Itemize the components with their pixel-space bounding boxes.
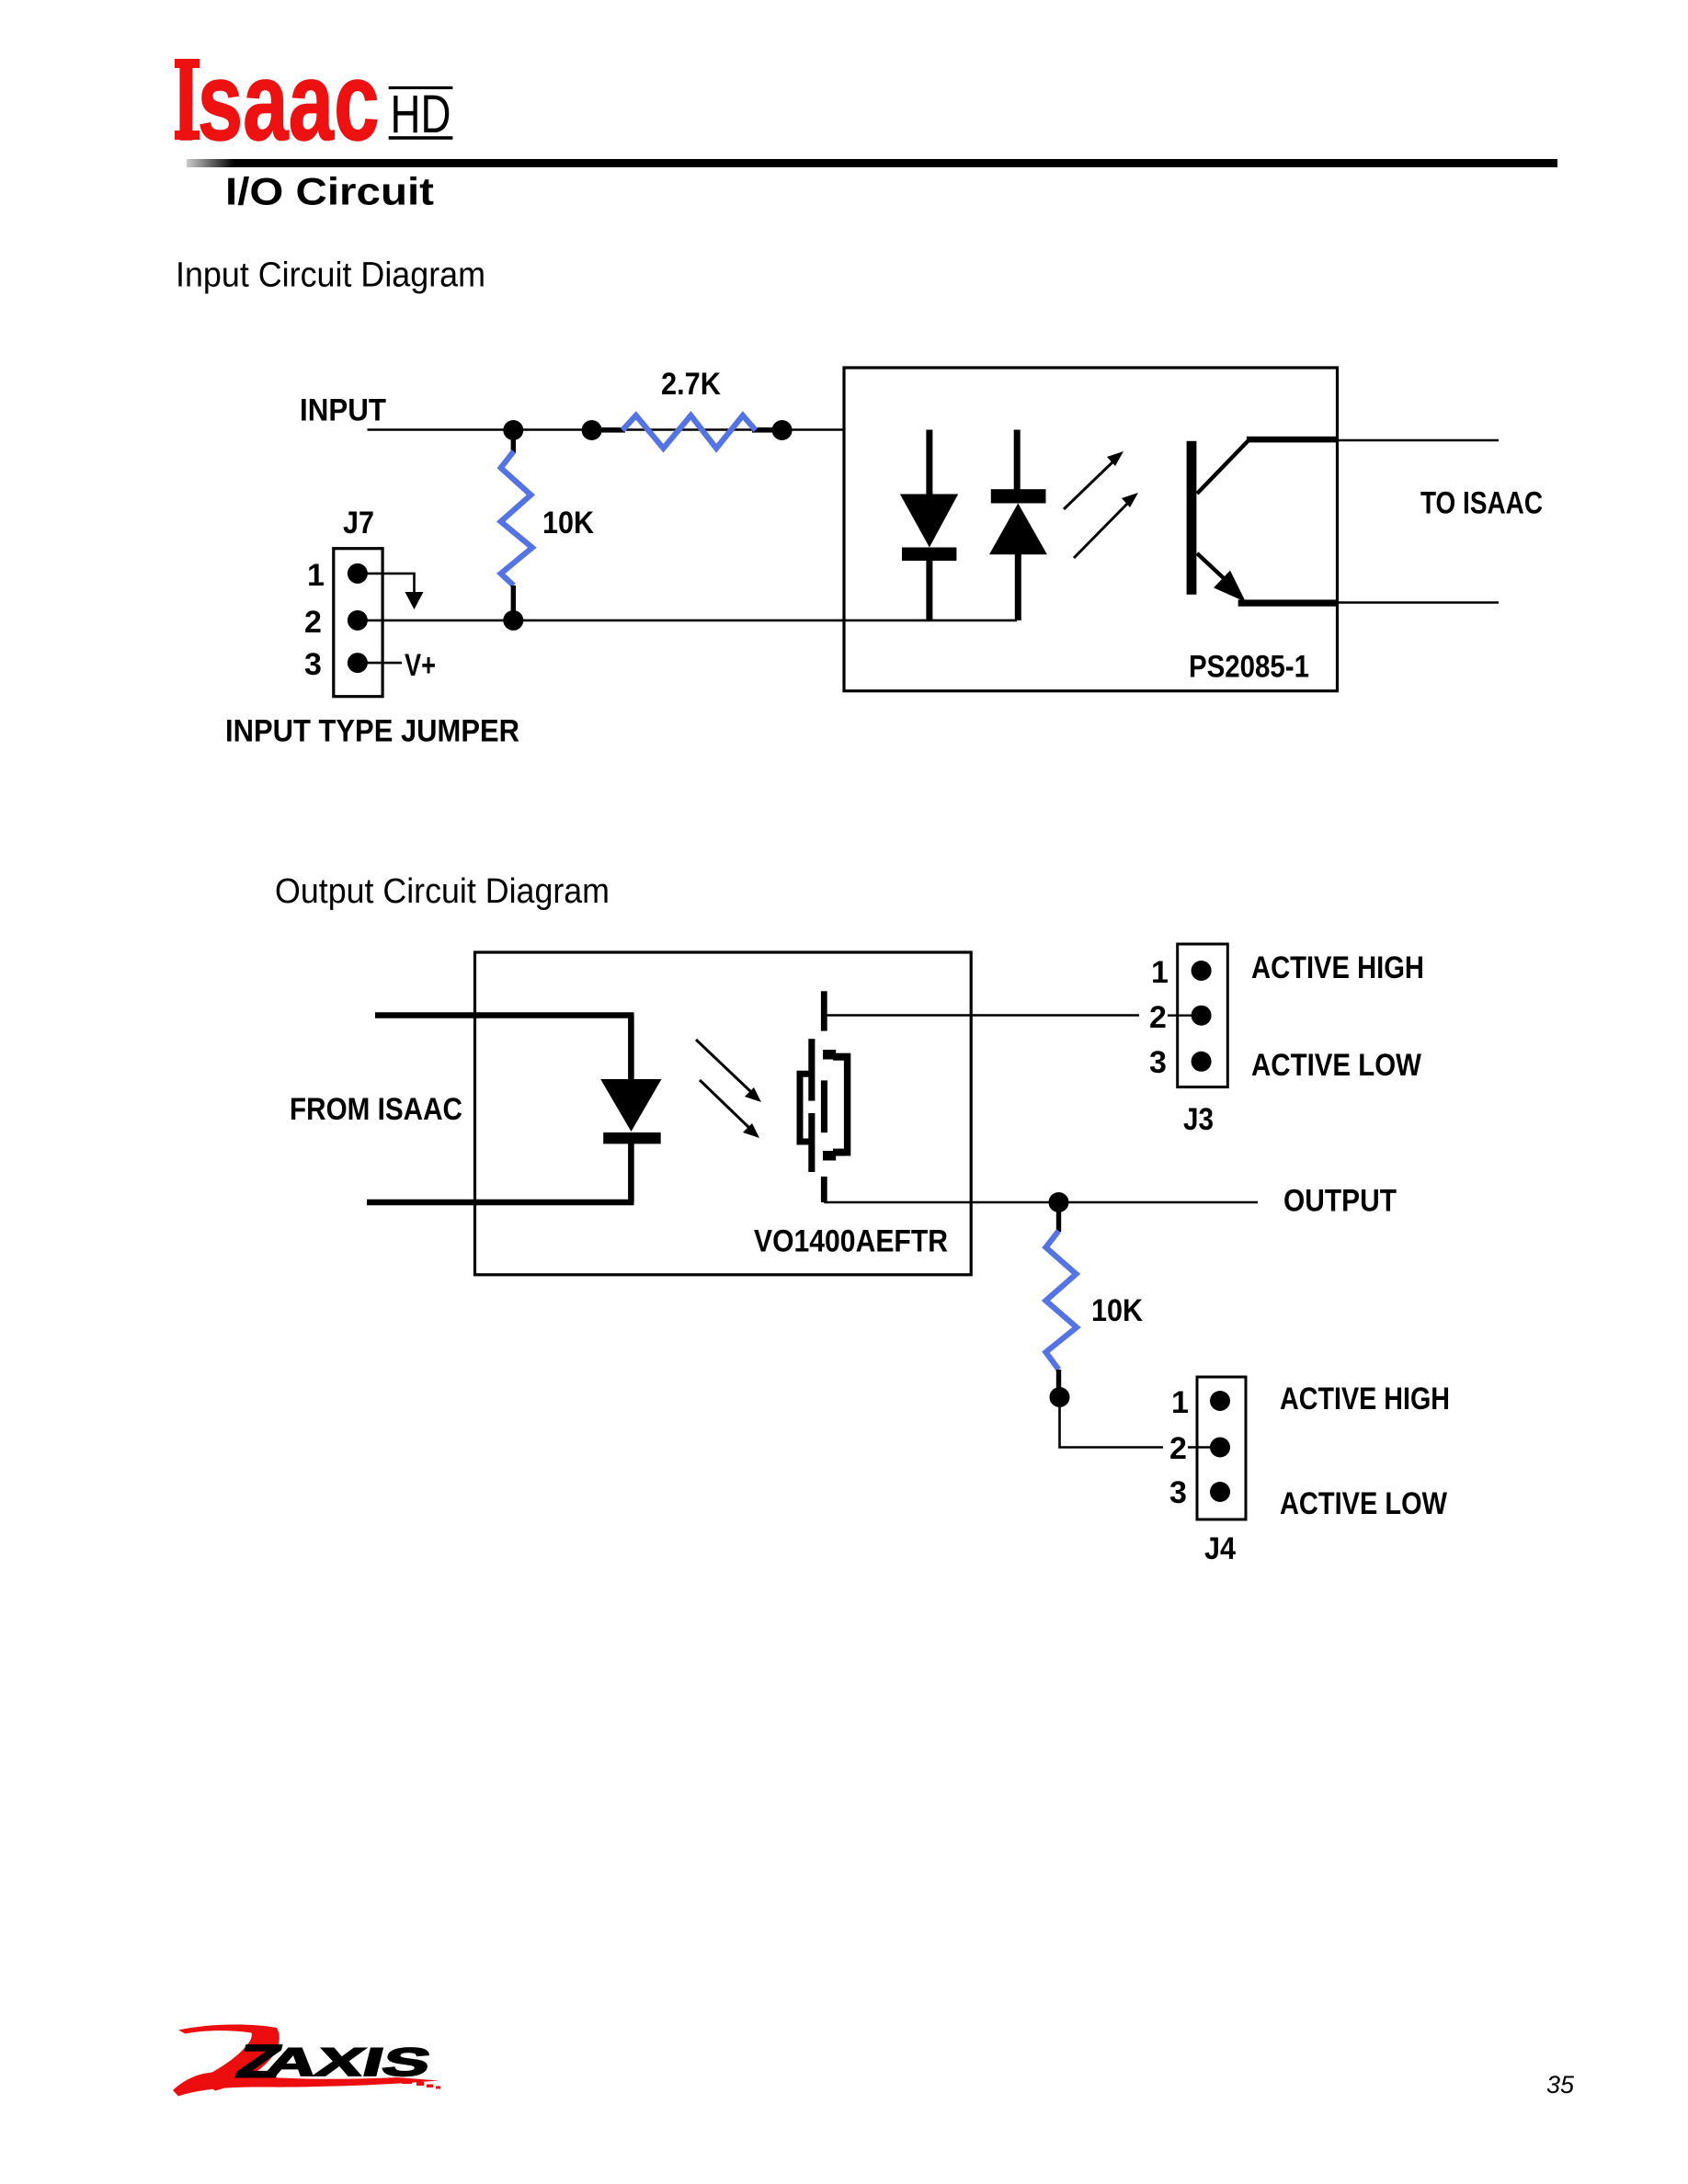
svg-text:3: 3 (1149, 1045, 1167, 1080)
svg-text:3: 3 (304, 647, 322, 682)
svg-text:ACTIVE LOW: ACTIVE LOW (1251, 1048, 1422, 1083)
svg-text:2: 2 (1169, 1431, 1187, 1466)
svg-text:J7: J7 (343, 506, 374, 540)
svg-text:Output Circuit Diagram: Output Circuit Diagram (275, 872, 610, 911)
svg-text:V+: V+ (405, 648, 436, 683)
svg-text:AXIS: AXIS (261, 2041, 436, 2085)
svg-text:Input Circuit Diagram: Input Circuit Diagram (176, 256, 485, 295)
svg-text:1: 1 (307, 558, 325, 593)
svg-text:1: 1 (1171, 1385, 1189, 1420)
svg-text:J3: J3 (1183, 1102, 1214, 1137)
svg-text:ACTIVE HIGH: ACTIVE HIGH (1251, 950, 1424, 985)
svg-text:10K: 10K (542, 506, 594, 540)
svg-text:HD: HD (391, 85, 451, 144)
svg-text:35: 35 (1546, 2071, 1575, 2099)
svg-text:FROM ISAAC: FROM ISAAC (290, 1092, 462, 1127)
svg-text:2.7K: 2.7K (661, 367, 721, 402)
svg-text:VO1400AEFTR: VO1400AEFTR (754, 1224, 948, 1259)
svg-text:I/O Circuit: I/O Circuit (225, 170, 434, 213)
svg-text:Isaac: Isaac (175, 40, 380, 165)
svg-text:TO ISAAC: TO ISAAC (1420, 486, 1543, 521)
svg-text:2: 2 (1149, 1000, 1167, 1035)
svg-text:INPUT: INPUT (300, 393, 386, 428)
svg-text:10K: 10K (1091, 1293, 1143, 1328)
svg-text:1: 1 (1151, 955, 1169, 990)
svg-text:J4: J4 (1204, 1531, 1236, 1566)
svg-text:2: 2 (304, 605, 322, 640)
svg-text:3: 3 (1169, 1475, 1187, 1510)
svg-text:ACTIVE HIGH: ACTIVE HIGH (1280, 1382, 1450, 1416)
svg-text:OUTPUT: OUTPUT (1283, 1184, 1397, 1219)
svg-text:ACTIVE LOW: ACTIVE LOW (1280, 1486, 1448, 1521)
svg-text:INPUT TYPE JUMPER: INPUT TYPE JUMPER (225, 714, 519, 749)
svg-text:PS2085-1: PS2085-1 (1189, 650, 1309, 685)
